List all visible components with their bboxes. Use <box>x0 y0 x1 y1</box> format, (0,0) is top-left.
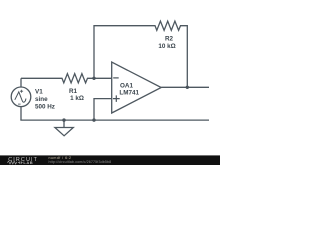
svg-text:OA1: OA1 <box>120 82 133 89</box>
svg-text:1 kΩ: 1 kΩ <box>70 95 84 102</box>
svg-text:R2: R2 <box>165 36 174 43</box>
svg-text:R1: R1 <box>69 88 78 95</box>
svg-text:http://circuitlab.com/c/26775f: http://circuitlab.com/c/26775f3db5b8 <box>49 160 112 164</box>
svg-text:V1: V1 <box>35 88 43 95</box>
svg-text:LM741: LM741 <box>119 90 139 97</box>
svg-text:10 kΩ: 10 kΩ <box>158 43 175 50</box>
svg-text:sine: sine <box>35 96 48 103</box>
svg-text:500 Hz: 500 Hz <box>35 103 55 110</box>
svg-text:LAB: LAB <box>23 160 33 165</box>
